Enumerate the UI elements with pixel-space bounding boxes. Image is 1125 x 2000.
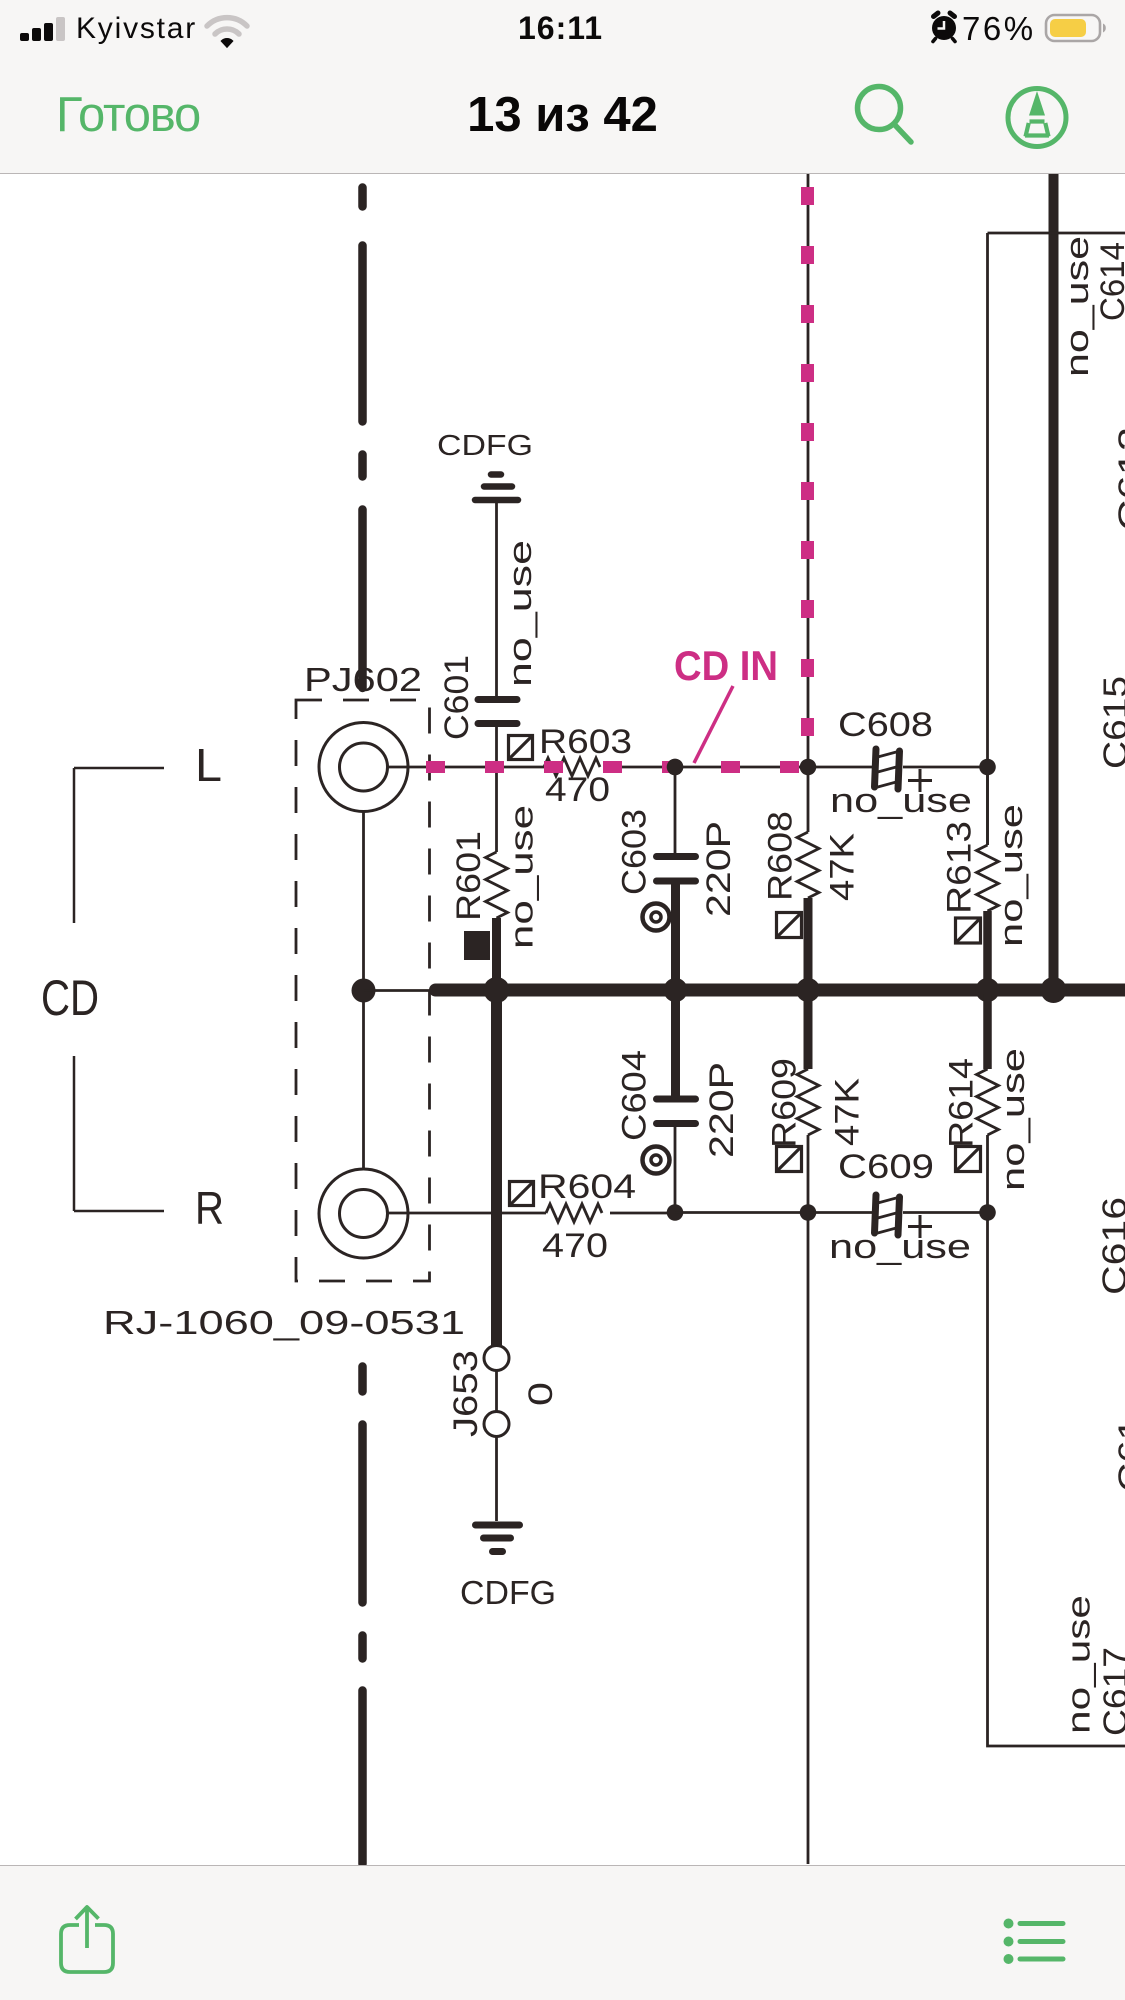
cellular signal icon bbox=[18, 0, 88, 50]
pin L circle of PJ602 bbox=[319, 723, 408, 812]
node bus/R608-R609 bbox=[796, 978, 820, 1002]
node bus/R613-R614 bbox=[976, 978, 1000, 1002]
svg-text:R: R bbox=[195, 1182, 224, 1234]
list icon bbox=[1000, 1916, 1080, 1976]
node bus/right trunk bbox=[1041, 977, 1067, 1003]
svg-text:470: 470 bbox=[545, 771, 610, 809]
svg-text:470: 470 bbox=[542, 1227, 608, 1265]
wire: bus down to J653 (thick) bbox=[491, 990, 502, 1345]
wire: node down to R613 bbox=[986, 775, 989, 845]
title 13 из 42 bbox=[0, 87, 1125, 143]
wire: node down to R608 bbox=[807, 775, 810, 832]
svg-text:C615: C615 bbox=[1097, 676, 1125, 769]
wire: node to audio bus bbox=[364, 989, 431, 992]
capacitor C603 bbox=[657, 857, 696, 882]
svg-text:C609: C609 bbox=[838, 1148, 934, 1186]
capacitor C601 bbox=[478, 700, 517, 724]
wifi icon (weak) bbox=[202, 0, 252, 50]
capacitor C604 bbox=[657, 1099, 696, 1124]
svg-text:C617: C617 bbox=[1097, 1647, 1125, 1736]
box C614 block (right) bbox=[988, 233, 1125, 1746]
wire: CDFG to C601 bbox=[495, 503, 498, 696]
capacitor C604 stub from bus bbox=[671, 994, 680, 1096]
svg-text:no_use: no_use bbox=[504, 805, 540, 949]
node at PJ602 ground column bbox=[352, 979, 376, 1003]
bracket CD input (left) bbox=[74, 768, 164, 1211]
resistor R603 bbox=[544, 758, 600, 776]
capacitor C603 wire from node bbox=[674, 775, 677, 853]
svg-text:47K: 47K bbox=[824, 833, 862, 901]
resistor R608 bbox=[797, 832, 819, 898]
resistor R613 bbox=[977, 845, 999, 911]
svg-text:220P: 220P bbox=[700, 821, 738, 917]
wire: R609 to node bbox=[807, 1135, 810, 1205]
marker square R603 bbox=[509, 736, 533, 760]
svg-text:no_use: no_use bbox=[995, 1048, 1031, 1191]
svg-text:R601: R601 bbox=[450, 831, 488, 921]
svg-text:CD: CD bbox=[41, 970, 99, 1026]
svg-text:C608: C608 bbox=[838, 706, 933, 744]
polarity plus C608 bbox=[908, 769, 932, 792]
wire: R604 to node bbox=[610, 1212, 675, 1215]
highlight: CD IN dashed route (horizontal) bbox=[426, 761, 806, 773]
svg-text:R604: R604 bbox=[538, 1168, 636, 1206]
search icon bbox=[840, 70, 920, 160]
wire: node down to R pin bbox=[362, 991, 365, 1170]
ground CDFG (bottom) bbox=[476, 1525, 520, 1552]
svg-text:0: 0 bbox=[522, 1382, 560, 1406]
svg-text:R603: R603 bbox=[539, 723, 632, 761]
resistor R601 bbox=[486, 852, 508, 918]
wire: C604 to node bbox=[674, 1127, 677, 1205]
wire: C609 row to R614 node bbox=[808, 1211, 872, 1214]
svg-text:no_use: no_use bbox=[1059, 236, 1095, 377]
node CD IN junction bbox=[667, 759, 684, 776]
svg-text:C616: C616 bbox=[1096, 1197, 1125, 1295]
wire: R601 to bus (thick stub) bbox=[492, 918, 501, 986]
alarm clock icon bbox=[924, 0, 970, 50]
svg-text:CD IN: CD IN bbox=[674, 642, 778, 689]
wire: C608 to box edge node bbox=[903, 766, 988, 769]
svg-text:C614: C614 bbox=[1094, 242, 1125, 321]
node C608/R613 bbox=[979, 759, 996, 776]
callout line CD IN bbox=[694, 686, 733, 763]
wire: C601 down across L wire to R601 bbox=[495, 727, 498, 852]
polarity ring C604 bbox=[643, 1147, 670, 1174]
highlight: CD IN dashed route (vertical) bbox=[801, 187, 814, 759]
svg-text:C61: C61 bbox=[1112, 1418, 1125, 1492]
marker block R601 (filled) bbox=[464, 931, 490, 960]
svg-text:C604: C604 bbox=[616, 1050, 654, 1141]
wire: R614 to node bbox=[986, 1135, 989, 1205]
svg-text:CDFG: CDFG bbox=[460, 1574, 556, 1611]
svg-text:no_use: no_use bbox=[1061, 1595, 1097, 1734]
pin R circle of PJ602 bbox=[319, 1169, 408, 1258]
svg-text:no_use: no_use bbox=[993, 804, 1029, 947]
capacitor C609 (no_use) bbox=[875, 1195, 900, 1235]
wire: R613 to bus (thick stub) bbox=[983, 911, 992, 986]
wire: right trunk (thick, top to bus) bbox=[1049, 174, 1059, 986]
svg-text:C612: C612 bbox=[1112, 427, 1125, 531]
wire: thin line above CD IN node (x=808) bbox=[807, 174, 810, 760]
resistor R609 stub from bus bbox=[804, 994, 813, 1069]
bottom toolbar bbox=[0, 1865, 1125, 2000]
polarity ring C603 bbox=[643, 904, 670, 931]
node R604/C604 bbox=[667, 1204, 684, 1221]
resistor R609 bbox=[797, 1069, 819, 1135]
connector PJ602 dashed box bbox=[296, 700, 430, 1281]
wire: C603 to bus (thick stub) bbox=[671, 884, 680, 986]
svg-text:L: L bbox=[195, 739, 222, 791]
capacitor C608 (no_use) bbox=[875, 749, 900, 789]
svg-text:no_use: no_use bbox=[502, 540, 538, 687]
marker square R613 bbox=[956, 918, 981, 943]
node CD IN junction (over highlight) bbox=[667, 759, 684, 776]
svg-text:C603: C603 bbox=[616, 809, 654, 895]
battery icon (76%, yellow) bbox=[1044, 0, 1114, 50]
wire: R608 to bus (thick stub) bbox=[804, 898, 813, 986]
marker square R608 bbox=[777, 913, 802, 938]
svg-text:R608: R608 bbox=[762, 811, 800, 901]
top status/navigation bar bbox=[0, 0, 1125, 174]
ground CDFG (top) bbox=[475, 475, 518, 501]
polarity plus C609 bbox=[908, 1215, 932, 1238]
wire: between J653 circles bbox=[495, 1371, 498, 1411]
wire: node to C608 bbox=[675, 766, 872, 769]
wire: L pin to R603 bbox=[387, 766, 545, 769]
node R614 row bbox=[979, 1204, 996, 1221]
resistor R614 bbox=[977, 1069, 999, 1135]
marker square R609 bbox=[777, 1147, 802, 1172]
svg-text:220P: 220P bbox=[703, 1062, 741, 1158]
wire: R pin to R604 bbox=[387, 1212, 547, 1215]
wire: R603 to node bbox=[608, 766, 675, 769]
wire: node to R609 column bbox=[675, 1211, 808, 1214]
wire: J653 to ground bbox=[495, 1437, 498, 1521]
audio bus (thick horizontal) bbox=[436, 984, 1125, 997]
svg-text:R613: R613 bbox=[941, 821, 979, 914]
svg-text:R614: R614 bbox=[943, 1058, 981, 1148]
svg-text:no_use: no_use bbox=[829, 1228, 971, 1266]
jumper J653 circles bbox=[484, 1346, 509, 1371]
svg-text:J653: J653 bbox=[447, 1350, 485, 1437]
marker square R604 bbox=[510, 1182, 534, 1206]
markup pen icon bbox=[1000, 80, 1080, 170]
svg-text:47K: 47K bbox=[829, 1078, 867, 1146]
resistor R614 stub from bus bbox=[983, 994, 992, 1069]
node bus/J653 bbox=[484, 977, 510, 1003]
wire: thick dashed trunk upper (x=362) bbox=[358, 188, 367, 689]
svg-text:no_use: no_use bbox=[830, 782, 972, 820]
marker square R614 bbox=[956, 1147, 981, 1172]
wire: L pin down to node bbox=[362, 812, 365, 991]
svg-text:CDFG: CDFG bbox=[437, 430, 533, 462]
wire: thick dashed trunk lower (x=362) bbox=[358, 1367, 367, 1865]
resistor R604 bbox=[546, 1204, 602, 1222]
svg-text:RJ-1060_09-0531: RJ-1060_09-0531 bbox=[103, 1304, 465, 1341]
wire: R609 node down to page bottom bbox=[807, 1213, 810, 1865]
svg-text:PJ602: PJ602 bbox=[304, 661, 422, 698]
button Готово bbox=[56, 87, 200, 143]
node R609 row bbox=[800, 1204, 817, 1221]
node bus/C603-C604 bbox=[664, 978, 688, 1002]
svg-text:C601: C601 bbox=[438, 655, 476, 740]
share icon bbox=[55, 1886, 125, 1981]
svg-text:R609: R609 bbox=[766, 1058, 804, 1148]
node R608 column / CD IN wire bbox=[800, 759, 817, 776]
